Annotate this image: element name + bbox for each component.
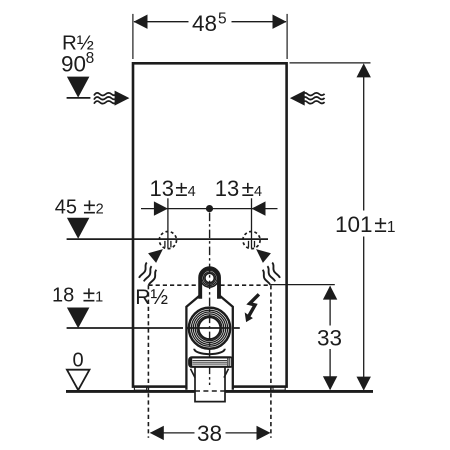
supply stub circle left (dashed)	[159, 232, 176, 249]
dim 13 tick right	[251, 198, 253, 248]
dim 48.5 arrow right	[273, 15, 287, 29]
dim 101 arrow down	[357, 377, 371, 391]
svg-text:45: 45	[55, 197, 77, 219]
supply stub circle right (dashed)	[243, 232, 260, 249]
panel foot right	[273, 387, 285, 391]
svg-text:0: 0	[73, 350, 84, 372]
panel outline	[133, 63, 287, 386]
dim 101 extension line top	[290, 62, 371, 64]
water waves right inlet	[302, 93, 325, 104]
flow arrow to right circle	[256, 249, 280, 285]
fixture body fill (occludes panel bottom edge)	[186, 296, 232, 390]
water inlet arrow left	[115, 91, 130, 106]
svg-text:8: 8	[86, 50, 95, 67]
dim 13 tick left	[167, 198, 169, 248]
dim 33 line	[329, 287, 331, 390]
svg-text:5: 5	[218, 11, 227, 28]
fixture vertical centerline	[209, 213, 211, 385]
water waves left inlet	[94, 93, 117, 104]
svg-text:13: 13	[215, 176, 239, 201]
main valve ring	[189, 308, 230, 349]
dim 48.5 line	[134, 21, 286, 23]
clamp bar	[189, 357, 232, 366]
marker triangle 45	[67, 218, 90, 239]
dashed service box right edge + dim 38 ext	[270, 285, 272, 438]
dim 101 arrow up	[357, 63, 371, 77]
svg-text:R½: R½	[135, 286, 168, 309]
dim 48.5 extension line right	[286, 14, 288, 59]
svg-text:101: 101	[335, 212, 373, 237]
marker triangle 90.8	[67, 77, 90, 98]
panel foot left	[134, 387, 146, 391]
svg-text:18: 18	[52, 285, 74, 307]
ground line	[66, 390, 373, 393]
drain pipe	[195, 367, 225, 402]
brace left	[191, 369, 196, 378]
flow arrow to left circle	[139, 249, 163, 285]
svg-text:48: 48	[192, 11, 217, 36]
svg-text:33: 33	[317, 325, 342, 350]
dim 13 arrow right	[252, 201, 266, 215]
marker triangle 18	[67, 308, 90, 329]
dim 38 line	[151, 432, 270, 434]
sleeve arc under valve	[194, 349, 225, 354]
dashed service box left edge + dim 38 ext	[147, 285, 149, 438]
supply tab ring	[201, 269, 219, 287]
dim 13 center dot	[206, 205, 213, 212]
dashed service box top edge	[148, 284, 271, 286]
dim 13 line	[141, 208, 278, 210]
dim 13 arrow left	[154, 201, 168, 215]
dim 38 arrow left	[150, 426, 164, 440]
dim 48.5 arrow left	[134, 15, 148, 29]
dim 33 arrow down	[323, 376, 337, 390]
fixture body shoulders and sides	[186, 296, 232, 390]
dim 48.5 extension line left	[132, 14, 134, 59]
supply tab outline	[200, 268, 219, 299]
svg-text:13: 13	[150, 176, 174, 201]
svg-text:90: 90	[61, 52, 86, 77]
dim 101 line	[363, 65, 365, 390]
level line 90.8	[67, 97, 91, 99]
ground line dashed through drain pipe	[195, 390, 225, 392]
brace right	[224, 369, 229, 378]
dim 38 arrow right	[257, 426, 271, 440]
water inlet arrow right	[290, 91, 305, 106]
marker triangle 0 (open)	[67, 370, 90, 390]
svg-text:38: 38	[197, 421, 222, 446]
dim 33 arrow up	[323, 286, 337, 300]
ext line to dim 33	[271, 284, 335, 286]
level line 18 / fixture centerline horizontal	[67, 327, 240, 329]
lightning bolt	[245, 294, 259, 322]
level line 45	[67, 238, 268, 240]
